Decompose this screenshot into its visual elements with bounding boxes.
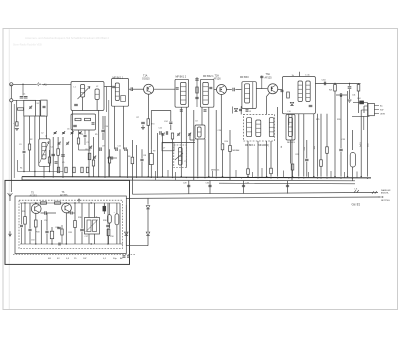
wire — [209, 181, 211, 194]
ground — [348, 99, 352, 101]
wire — [84, 138, 86, 145]
junction — [66, 202, 67, 203]
wire — [72, 212, 75, 214]
wire — [352, 115, 369, 117]
wire — [291, 114, 293, 180]
wire — [78, 130, 80, 138]
wire — [326, 153, 328, 176]
wire — [129, 88, 131, 90]
wire — [108, 203, 110, 215]
trimmer — [54, 131, 57, 133]
capacitor — [99, 147, 101, 151]
svg-text:MF/AM(2): MF/AM(2) — [259, 144, 269, 147]
resistor — [147, 119, 150, 126]
wire — [105, 87, 107, 113]
wire — [243, 181, 245, 194]
svg-text:C39: C39 — [342, 139, 345, 141]
output connector — [372, 191, 374, 194]
trimmer — [162, 133, 165, 135]
wire — [23, 154, 25, 172]
capacitor — [195, 78, 198, 80]
wire — [22, 84, 24, 95]
wire — [103, 203, 105, 206]
junction — [247, 176, 248, 177]
audio outer box — [5, 180, 130, 264]
wire — [342, 94, 347, 96]
junction — [72, 176, 73, 177]
resistor — [131, 157, 134, 164]
resistor — [360, 101, 364, 104]
wire — [126, 245, 148, 247]
oscillator coil — [42, 143, 46, 160]
box filter — [41, 100, 47, 116]
transistor T2 — [217, 85, 227, 95]
junction — [361, 176, 362, 177]
wire — [42, 83, 72, 85]
wire — [363, 106, 365, 113]
supply bus — [22, 177, 371, 178]
wire — [131, 178, 133, 194]
wire — [229, 152, 231, 181]
wire — [133, 88, 144, 90]
capacitor electrolytic — [115, 214, 119, 225]
junction — [320, 177, 321, 178]
ground — [141, 127, 145, 129]
wire — [212, 171, 214, 177]
wire T1 emitter — [148, 94, 150, 118]
junction — [291, 177, 292, 178]
wire — [358, 83, 360, 84]
wire — [125, 205, 127, 231]
wire — [175, 172, 177, 180]
coil box — [286, 115, 295, 141]
junction — [23, 171, 24, 172]
wire — [46, 116, 48, 139]
wire — [51, 227, 53, 231]
wire — [235, 170, 237, 177]
tuner box L2 — [71, 114, 96, 130]
wire — [13, 83, 37, 85]
wire — [24, 203, 26, 217]
wire — [353, 102, 368, 104]
coil — [247, 118, 252, 137]
wire — [326, 114, 328, 147]
wire — [136, 145, 138, 177]
wire — [232, 107, 234, 114]
svg-text:C6: C6 — [67, 129, 69, 131]
svg-text:C1: C1 — [23, 94, 25, 96]
svg-text:C58: C58 — [110, 236, 113, 238]
wire — [308, 172, 310, 178]
junction — [104, 177, 105, 178]
IF transformer BK2-1 — [200, 79, 214, 107]
wire — [261, 76, 263, 89]
wire — [81, 203, 83, 228]
wire — [88, 130, 90, 177]
junction — [136, 177, 137, 178]
output arrow — [378, 196, 382, 198]
box mixer — [24, 100, 36, 116]
junction — [313, 176, 314, 177]
wire — [13, 99, 40, 101]
capacitor — [281, 89, 284, 91]
junction — [292, 176, 293, 177]
wire — [349, 89, 351, 99]
ratio detector box — [282, 77, 315, 114]
transistor T3 — [268, 84, 278, 94]
wire — [283, 171, 285, 178]
junction — [98, 176, 99, 177]
junction — [222, 176, 223, 177]
resistor — [28, 144, 30, 150]
junction — [257, 177, 258, 178]
svg-text:R38: R38 — [103, 220, 106, 222]
wire T6 down — [65, 212, 67, 244]
svg-text:C64: C64 — [357, 98, 360, 100]
wire — [57, 156, 59, 172]
wire — [39, 100, 41, 116]
junction — [181, 176, 182, 177]
wire — [46, 213, 48, 230]
wire — [21, 177, 23, 181]
coil — [289, 118, 293, 137]
resistor — [48, 157, 50, 163]
wire — [360, 110, 362, 177]
svg-text:R21: R21 — [329, 90, 332, 92]
wire — [119, 203, 121, 244]
wire — [107, 228, 109, 244]
wire — [170, 124, 172, 130]
wire — [29, 232, 31, 244]
resistor — [61, 229, 63, 235]
resistor — [86, 167, 88, 173]
junction — [277, 177, 278, 178]
capacitor — [23, 150, 26, 152]
resistor — [74, 221, 77, 228]
svg-text:R34: R34 — [56, 227, 59, 229]
capacitor — [55, 161, 58, 163]
junction — [241, 177, 242, 178]
coil box — [162, 143, 174, 151]
oscillator box — [39, 139, 50, 167]
capacitor — [180, 109, 183, 111]
connector block — [368, 103, 374, 115]
resistor — [57, 149, 60, 156]
wire — [38, 116, 40, 139]
svg-text:OC615: OC615 — [142, 77, 150, 80]
wire — [361, 109, 368, 111]
wire — [222, 150, 224, 177]
wire — [62, 137, 64, 177]
wire — [147, 209, 149, 232]
IF transformer BK1-1 — [112, 79, 129, 107]
wire — [78, 144, 80, 150]
junction — [229, 177, 230, 178]
resistor — [55, 202, 61, 204]
coil box — [195, 125, 205, 139]
capacitor — [187, 184, 190, 186]
wire — [29, 116, 31, 144]
wire — [29, 150, 31, 171]
wire — [340, 95, 342, 148]
antenna symbol — [9, 194, 11, 202]
junction — [349, 83, 350, 84]
trimmer — [71, 131, 74, 133]
capacitor — [74, 103, 78, 105]
wire — [61, 225, 63, 229]
wire — [93, 137, 95, 160]
junction — [157, 177, 158, 178]
resistor — [41, 202, 47, 204]
capacitor — [246, 109, 249, 111]
wire — [196, 77, 198, 107]
wire — [299, 72, 301, 77]
coil — [203, 82, 209, 104]
wire — [46, 234, 48, 244]
junction — [266, 176, 267, 177]
wire — [103, 211, 105, 214]
diode — [234, 108, 237, 111]
wire — [363, 116, 365, 130]
volume pot box — [174, 145, 187, 168]
wire — [201, 108, 203, 126]
junction — [66, 243, 67, 244]
capacitor — [112, 85, 115, 87]
wire — [180, 108, 182, 177]
junction — [35, 202, 36, 203]
trimmer — [177, 133, 180, 135]
resistor — [149, 154, 153, 165]
junction — [53, 176, 54, 177]
svg-text:C3: C3 — [19, 144, 21, 146]
svg-text:C33: C33 — [246, 183, 249, 185]
wire — [190, 139, 195, 141]
wire — [229, 130, 231, 146]
wire — [320, 114, 322, 160]
junction — [91, 202, 92, 203]
coil — [115, 83, 119, 101]
driver transformer — [85, 218, 100, 235]
svg-text:ANSCHL.: ANSCHL. — [381, 192, 390, 195]
wire — [24, 224, 26, 244]
collector rail — [20, 202, 120, 204]
junction — [347, 176, 348, 177]
junction — [303, 177, 304, 178]
capacitor — [73, 124, 77, 126]
junction — [193, 177, 194, 178]
capacitor — [115, 147, 117, 151]
wire — [43, 166, 45, 176]
wiper arrow — [175, 153, 183, 160]
capacitor — [323, 82, 325, 86]
wire — [114, 106, 116, 149]
trimmer — [79, 131, 82, 133]
capacitor — [242, 184, 245, 186]
junction — [326, 177, 327, 178]
junction — [172, 177, 173, 178]
terminal A1 — [10, 83, 13, 86]
capacitor — [20, 224, 23, 226]
wire — [313, 114, 315, 177]
wire — [23, 116, 25, 150]
wire — [141, 149, 143, 158]
diode — [146, 232, 150, 235]
junction — [127, 177, 128, 178]
ground bus — [22, 180, 355, 181]
junction — [162, 142, 163, 143]
wire — [51, 239, 53, 244]
trimmer — [29, 106, 32, 108]
resistor — [196, 87, 198, 93]
wire — [150, 149, 152, 153]
resistor — [103, 206, 106, 211]
wire — [88, 203, 90, 218]
junction — [367, 178, 368, 179]
junction — [107, 243, 108, 244]
capacitor — [176, 87, 179, 89]
capacitor — [159, 131, 161, 135]
capacitor — [28, 228, 31, 230]
svg-text:C11: C11 — [118, 146, 121, 148]
resistor — [229, 146, 232, 152]
wire — [330, 171, 332, 178]
resistor — [247, 169, 250, 175]
wire — [46, 212, 56, 214]
wire — [79, 149, 91, 151]
wire — [21, 228, 23, 244]
svg-text:L10: L10 — [288, 111, 291, 113]
capacitor — [195, 96, 198, 98]
wire — [116, 225, 118, 244]
capacitor — [309, 104, 313, 106]
svg-text:C30: C30 — [206, 183, 209, 185]
tuning arrow — [78, 87, 91, 100]
wire — [204, 139, 206, 177]
AP switch — [123, 255, 126, 257]
capacitor — [286, 184, 289, 186]
wire — [163, 142, 196, 144]
svg-text:R36: R36 — [78, 217, 81, 219]
wire — [226, 89, 232, 91]
wire — [150, 165, 152, 177]
resistor — [88, 153, 91, 160]
junction — [208, 176, 209, 177]
svg-text:C22: C22 — [159, 128, 162, 130]
wire — [147, 235, 149, 245]
coil L1a — [81, 85, 85, 98]
coil — [298, 81, 302, 102]
transistor T5 — [31, 204, 41, 214]
wire — [151, 110, 171, 112]
wire — [306, 162, 308, 177]
svg-text:C10: C10 — [105, 126, 108, 128]
capacitor — [232, 88, 234, 92]
wire — [142, 125, 144, 128]
wire — [364, 105, 368, 107]
wire — [98, 110, 100, 177]
resistor — [85, 118, 91, 120]
wire — [74, 228, 76, 245]
capacitor — [43, 105, 46, 107]
svg-text:C2: C2 — [41, 133, 43, 135]
wire — [185, 108, 187, 168]
diode — [290, 102, 293, 105]
wire — [147, 125, 149, 176]
junction — [352, 177, 353, 178]
wire — [334, 83, 336, 84]
svg-text:C9: C9 — [102, 146, 104, 148]
junction — [119, 176, 120, 177]
capacitor — [169, 121, 172, 123]
capacitor — [260, 75, 263, 77]
junction — [148, 176, 149, 177]
capacitor — [84, 134, 87, 136]
capacitor — [58, 243, 60, 246]
wire — [261, 168, 263, 177]
wire — [208, 108, 210, 177]
resistor — [57, 167, 59, 173]
wire — [320, 166, 322, 176]
coil — [306, 81, 310, 102]
wire — [352, 167, 354, 181]
junction — [271, 88, 272, 89]
capacitor — [61, 154, 65, 156]
svg-text:MF BK3 1: MF BK3 1 — [245, 145, 256, 147]
wire — [292, 170, 294, 177]
resistor — [75, 118, 81, 120]
wire — [287, 181, 289, 194]
pin — [374, 113, 379, 115]
wire — [235, 89, 241, 91]
capacitor — [101, 129, 104, 131]
wire — [356, 172, 358, 178]
svg-text:MF BK1 1: MF BK1 1 — [113, 77, 124, 80]
wire — [109, 149, 111, 157]
svg-text:R26: R26 — [337, 119, 340, 121]
wire — [344, 172, 346, 178]
AM IF box — [243, 114, 274, 141]
wire — [358, 91, 360, 113]
wire — [127, 149, 129, 176]
wire — [336, 94, 340, 96]
dashed speaker line — [13, 253, 136, 255]
svg-text:C5: C5 — [62, 162, 64, 164]
capacitor — [44, 211, 46, 215]
wire — [93, 166, 95, 177]
resistor — [24, 217, 27, 225]
ground — [15, 128, 19, 130]
wire — [34, 116, 36, 177]
capacitor — [92, 122, 95, 124]
junction — [162, 176, 163, 177]
resistor — [73, 167, 75, 173]
capacitor electrolytic — [350, 153, 355, 168]
junction — [74, 202, 75, 203]
wire — [52, 137, 54, 177]
wire — [315, 82, 360, 84]
wire T3 emitter — [267, 93, 270, 97]
svg-text:L9: L9 — [249, 111, 251, 113]
svg-text:S1: S1 — [37, 103, 39, 105]
svg-text:R2: R2 — [30, 139, 32, 141]
wire — [96, 100, 98, 111]
svg-text:R7: R7 — [137, 117, 139, 119]
wire — [104, 116, 106, 177]
svg-text:AF126: AF126 — [214, 77, 222, 80]
junction — [221, 89, 222, 90]
wire — [270, 141, 272, 168]
resistor — [92, 160, 94, 166]
